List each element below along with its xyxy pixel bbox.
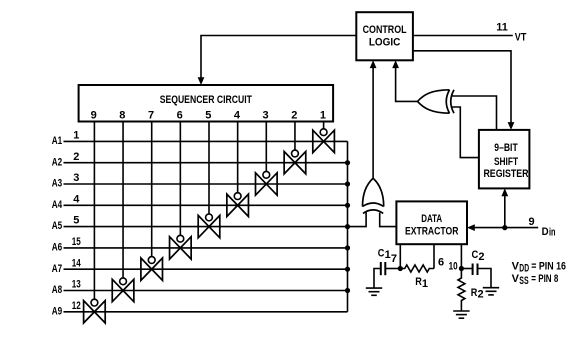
- row A2 wire: [64, 162, 348, 164]
- svg-text:13: 13: [72, 279, 81, 291]
- row A5 wire: [64, 226, 348, 228]
- sequencer pin 6: [177, 110, 183, 122]
- sequencer pin 5: [205, 110, 211, 122]
- svg-text:3: 3: [73, 172, 79, 184]
- wire XOR U6 bottom input from shift register left: [452, 107, 479, 158]
- svg-text:A1: A1: [52, 135, 62, 147]
- wire XOR U6 output to control logic: [392, 60, 417, 101]
- svg-text:A9: A9: [52, 305, 62, 317]
- control logic box U2: [356, 12, 413, 60]
- svg-text:2: 2: [73, 151, 79, 163]
- capacitor C1 label: [378, 247, 391, 261]
- svg-text:8: 8: [119, 110, 125, 122]
- svg-text:9–BIT: 9–BIT: [494, 142, 518, 154]
- svg-text:3: 3: [263, 110, 269, 122]
- svg-text:A8: A8: [52, 284, 62, 296]
- svg-text:2: 2: [478, 251, 484, 263]
- resistor R1: [400, 265, 434, 272]
- VDD supply label: [512, 261, 566, 275]
- sequencer circuit box: [79, 85, 334, 122]
- analog switch S8: [112, 278, 134, 302]
- node A2 label: [52, 156, 62, 168]
- sequencer pin 7: [148, 110, 154, 122]
- column 7 wire: [151, 122, 153, 257]
- svg-text:C: C: [472, 249, 479, 261]
- svg-text:D: D: [542, 226, 549, 238]
- resistor R1 label: [415, 276, 428, 290]
- analog switch S3: [256, 171, 278, 195]
- pin 6 stub wire: [433, 244, 435, 268]
- ground R2: [453, 311, 469, 318]
- column 4 wire: [237, 122, 239, 193]
- column 3 wire: [265, 122, 267, 172]
- junction bus A4: [345, 203, 350, 208]
- svg-text:9: 9: [91, 110, 97, 122]
- 9-bit shift register box U3: [479, 130, 530, 189]
- svg-text:7: 7: [391, 253, 397, 265]
- row A9 wire: [64, 311, 348, 313]
- svg-text:REGISTER: REGISTER: [483, 168, 528, 180]
- wire Din to shift register bottom: [501, 188, 508, 227]
- junction bus A8: [345, 288, 350, 293]
- svg-text:in: in: [549, 227, 556, 239]
- wire control logic to shift register: [413, 51, 515, 130]
- svg-text:R: R: [415, 276, 422, 288]
- pin 9 label: [528, 216, 534, 228]
- node Din label: [542, 226, 556, 239]
- svg-text:10: 10: [449, 261, 458, 273]
- junction Din node: [502, 225, 507, 230]
- svg-text:SS: SS: [519, 275, 528, 287]
- wire XOR U6 top input from shift register: [452, 96, 497, 130]
- pin 1 label: [73, 130, 79, 142]
- analog switch S9: [84, 299, 106, 323]
- svg-text:A6: A6: [52, 242, 62, 254]
- svg-text:CONTROL: CONTROL: [363, 24, 407, 36]
- junction bus A6: [345, 245, 350, 250]
- pin 10 label: [449, 261, 458, 273]
- svg-text:9: 9: [528, 216, 534, 228]
- column 5 wire: [208, 122, 210, 215]
- svg-text:C: C: [378, 247, 385, 259]
- analog switch S7: [141, 257, 163, 281]
- pin 12 label: [72, 300, 81, 312]
- sequencer pin 2: [291, 110, 297, 122]
- column 9 wire: [93, 122, 95, 300]
- svg-text:4: 4: [73, 193, 80, 205]
- node A5 label: [52, 220, 62, 232]
- svg-text:R: R: [471, 287, 478, 299]
- node A6 label: [52, 242, 62, 254]
- svg-text:= PIN 16: = PIN 16: [531, 261, 566, 273]
- sequencer pin 9: [91, 110, 97, 122]
- svg-text:SEQUENCER CIRCUIT: SEQUENCER CIRCUIT: [160, 94, 252, 106]
- analog switch S5: [198, 214, 220, 238]
- pin 13 label: [72, 279, 81, 291]
- ground C1: [366, 288, 382, 295]
- resistor R2 label: [471, 287, 484, 301]
- row A6 wire: [64, 247, 348, 249]
- row A8 wire: [64, 290, 348, 292]
- wire data extractor to XOR U5 right input: [380, 213, 397, 227]
- svg-text:4: 4: [234, 110, 241, 122]
- row A4 wire: [64, 204, 348, 206]
- wire VT output: [413, 35, 513, 37]
- svg-text:1: 1: [385, 249, 391, 261]
- svg-text:A3: A3: [52, 178, 62, 190]
- junction node 10: [459, 266, 464, 271]
- analog switch S6: [170, 235, 192, 259]
- pin 10 stub wire: [460, 244, 462, 268]
- pin 14 label: [72, 257, 82, 269]
- column 6 wire: [179, 122, 181, 236]
- sequencer pin 1: [320, 110, 326, 122]
- wire control logic to sequencer circuit: [198, 36, 357, 86]
- data extractor box U4: [396, 201, 467, 244]
- analog switch S1: [313, 129, 335, 153]
- resistor R2: [458, 269, 465, 312]
- node A3 label: [52, 178, 62, 190]
- svg-text:= PIN 8: = PIN 8: [531, 273, 558, 285]
- wire Din input: [467, 224, 538, 231]
- node A8 label: [52, 284, 62, 296]
- svg-text:5: 5: [205, 110, 211, 122]
- output bus wire: [347, 141, 349, 311]
- pin 15 label: [72, 236, 81, 248]
- svg-text:1: 1: [73, 130, 79, 142]
- analog switch S2: [284, 150, 306, 174]
- pin 7 label: [391, 253, 397, 265]
- column 8 wire: [122, 122, 124, 278]
- pin 6 label: [438, 257, 444, 269]
- sequencer pin 3: [263, 110, 269, 122]
- svg-text:DATA: DATA: [421, 213, 442, 225]
- svg-text:SHIFT: SHIFT: [494, 156, 518, 168]
- svg-text:A5: A5: [52, 220, 62, 232]
- svg-text:LOGIC: LOGIC: [369, 36, 401, 48]
- capacitor C2 label: [472, 249, 485, 263]
- svg-text:EXTRACTOR: EXTRACTOR: [405, 226, 459, 238]
- pin 4 label: [73, 193, 80, 205]
- ground C2: [483, 288, 499, 295]
- svg-text:2: 2: [291, 110, 297, 122]
- capacitor C1: [374, 262, 400, 288]
- svg-text:DD: DD: [519, 263, 529, 275]
- pin 7 stub wire: [399, 244, 401, 268]
- column 2 wire: [294, 122, 296, 151]
- XOR gate U6: [418, 90, 455, 113]
- pin 5 label: [73, 215, 79, 227]
- junction bus A3: [345, 181, 350, 186]
- junction bus A5: [345, 224, 350, 229]
- svg-text:12: 12: [72, 300, 81, 312]
- row A3 wire: [64, 183, 348, 185]
- row A1 wire: [64, 140, 348, 142]
- svg-text:14: 14: [72, 257, 82, 269]
- node A1 label: [52, 135, 62, 147]
- svg-text:A2: A2: [52, 156, 62, 168]
- pin 3 label: [73, 172, 79, 184]
- analog switch S4: [227, 193, 249, 217]
- row A7 wire: [64, 268, 348, 270]
- svg-text:5: 5: [73, 215, 79, 227]
- junction node 7: [398, 266, 403, 271]
- junction bus A7: [345, 267, 350, 272]
- node A7 label: [52, 263, 62, 275]
- VSS supply label: [512, 273, 559, 287]
- svg-text:11: 11: [496, 22, 508, 34]
- svg-text:6: 6: [177, 110, 183, 122]
- pin 11 label: [496, 22, 508, 34]
- junction bus A2: [345, 160, 350, 165]
- svg-text:A4: A4: [52, 199, 63, 211]
- column 1 wire: [323, 122, 325, 129]
- capacitor C2: [461, 264, 491, 288]
- svg-text:2: 2: [478, 289, 484, 301]
- pin 2 label: [73, 151, 79, 163]
- svg-text:A7: A7: [52, 263, 62, 275]
- node VT label: [515, 31, 527, 43]
- node A4 label: [52, 199, 63, 211]
- node A9 label: [52, 305, 62, 317]
- svg-text:1: 1: [320, 110, 326, 122]
- wire XOR U5 output to control logic: [370, 60, 377, 178]
- svg-text:6: 6: [438, 257, 444, 269]
- wire bus tap to XOR U5 left input: [348, 212, 367, 226]
- svg-text:15: 15: [72, 236, 81, 248]
- svg-text:VT: VT: [515, 31, 527, 43]
- svg-text:7: 7: [148, 110, 154, 122]
- sequencer pin 4: [234, 110, 241, 122]
- sequencer pin 8: [119, 110, 125, 122]
- svg-text:1: 1: [422, 278, 428, 290]
- XOR gate U5: [363, 178, 384, 213]
